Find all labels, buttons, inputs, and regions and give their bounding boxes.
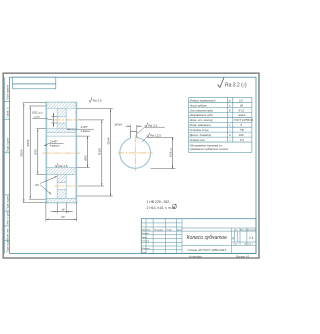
- svg-text:+0,035: +0,035: [33, 116, 40, 118]
- svg-text:Формат А3: Формат А3: [236, 254, 250, 258]
- svg-text:Ra 2,5: Ra 2,5: [93, 99, 102, 103]
- gear parameter table text: [189, 98, 254, 151]
- svg-text:1:1: 1:1: [249, 236, 254, 240]
- svg-text:Ø155: Ø155: [26, 139, 30, 146]
- svg-text:Сталь 45 ГОСТ 1050-2013: Сталь 45 ГОСТ 1050-2013: [187, 248, 226, 252]
- hatch rim top: [47, 103, 77, 108]
- title block outer: [141, 219, 256, 254]
- svg-text:R3: R3: [35, 183, 39, 187]
- svg-text:Ø144: Ø144: [106, 137, 110, 144]
- svg-text:Листов 1: Листов 1: [244, 244, 253, 246]
- svg-text:4 фаски: 4 фаски: [81, 129, 91, 133]
- svg-text:Подп. и дата: Подп. и дата: [7, 238, 9, 252]
- title block grid: [141, 219, 256, 254]
- svg-text:Коэф. смещения: Коэф. смещения: [190, 123, 212, 127]
- left margin rotated labels: [6, 84, 9, 252]
- svg-text:Копировал: Копировал: [189, 254, 202, 258]
- hatch web lower column below hole: [57, 190, 66, 199]
- svg-text:Ø164: Ø164: [20, 149, 24, 156]
- unspecified roughness symbol in notes: [172, 204, 176, 209]
- svg-text:Взам. инв.: Взам. инв.: [7, 228, 9, 239]
- svg-text:Ø50: Ø50: [83, 155, 87, 161]
- svg-text:160: 160: [239, 133, 244, 137]
- bottom extension lines: [46, 203, 77, 222]
- svg-text:4 фаски: 4 фаски: [50, 143, 60, 147]
- svg-text:ГОСТ 13755-81: ГОСТ 13755-81: [234, 118, 254, 122]
- svg-text:Колесо зубчатое: Колесо зубчатое: [187, 235, 228, 241]
- hatch web lower column above hole: [57, 174, 66, 182]
- svg-text:Подп.: Подп.: [167, 229, 173, 231]
- svg-text:Норм. исх. контур: Норм. исх. контур: [190, 118, 214, 122]
- title block right cells texts: [234, 230, 257, 246]
- dimension root diameter left: [29, 107, 31, 199]
- svg-text:Справ. №: Справ. №: [6, 106, 9, 117]
- bore circle: [120, 138, 151, 169]
- dimension hole circle right: [101, 120, 103, 186]
- gear parameter table: [189, 98, 252, 153]
- svg-text:50: 50: [61, 215, 65, 219]
- svg-text:0°12': 0°12': [239, 108, 246, 112]
- svg-text:Лист: Лист: [234, 244, 239, 246]
- svg-text:Масштаб: Масштаб: [247, 230, 257, 232]
- svg-text:Угол наклона зуба: Угол наклона зуба: [190, 108, 214, 112]
- technical notes: [147, 200, 177, 210]
- title block texts left column: [142, 228, 183, 254]
- svg-text:Разраб.: Разраб.: [142, 233, 150, 235]
- svg-text:Ra 12,5: Ra 12,5: [150, 134, 161, 138]
- keyway slot: [130, 131, 136, 138]
- hole Ø12 dimension: [51, 116, 57, 118]
- upper hole centerline: [54, 119, 78, 121]
- svg-text:Перв. примен.: Перв. примен.: [7, 84, 9, 100]
- svg-text:Дата: Дата: [177, 229, 183, 231]
- svg-text:1 НВ 229...262.: 1 НВ 229...262.: [147, 200, 171, 204]
- svg-text:Осевой шаг: Осевой шаг: [190, 138, 206, 142]
- svg-text:Число зубьев: Число зубьев: [190, 103, 207, 107]
- face width dimension: [46, 218, 77, 220]
- svg-text:2 Н14, h14, ± IT14/2.: 2 Н14, h14, ± IT14/2.: [147, 206, 177, 210]
- svg-text:Делит. диаметр: Делит. диаметр: [189, 133, 212, 137]
- svg-text:2×45°: 2×45°: [80, 125, 89, 129]
- svg-text:№ докум.: № докум.: [154, 228, 164, 231]
- gear axis centerline: [43, 152, 81, 154]
- svg-text:6,3: 6,3: [240, 138, 244, 142]
- svg-text:Подп. и дата: Подп. и дата: [7, 195, 9, 209]
- left margin column boxes: [4, 77, 9, 253]
- right extension lines: [77, 109, 113, 196]
- hatch rim bottom: [47, 198, 77, 202]
- web thickness dimension: [51, 211, 58, 213]
- svg-text:Ra 3,2: Ra 3,2: [148, 123, 157, 127]
- bore roughness Ra 1.6: [55, 163, 58, 167]
- copied / format footer: [189, 254, 250, 258]
- svg-text:Лит.: Лит.: [234, 230, 238, 232]
- svg-text:Лист: Лист: [146, 229, 151, 231]
- svg-text:пряжённого зубчатого колеса: пряжённого зубчатого колеса: [190, 147, 229, 151]
- svg-text:14: 14: [61, 207, 65, 211]
- hatch web upper column above hole: [57, 108, 66, 117]
- svg-text:Подп. и дата: Подп. и дата: [7, 137, 9, 151]
- dimension hub diameter left: [37, 129, 39, 175]
- inner drawing frame: [10, 77, 256, 253]
- surface finish mark top right: [218, 78, 225, 88]
- bore surface roughness Ra 12.5: [147, 133, 150, 138]
- lower hole centerline: [54, 185, 78, 187]
- left extension lines: [23, 103, 46, 203]
- dimension OD left: [23, 103, 25, 202]
- svg-text:Т.контр.: Т.контр.: [142, 241, 150, 243]
- keyway depth dimension: [151, 168, 176, 170]
- svg-text:Инв. № дубл.: Инв. № дубл.: [6, 210, 9, 225]
- svg-text:7-В: 7-В: [240, 128, 244, 132]
- svg-text:Ra 1,6: Ra 1,6: [58, 164, 67, 168]
- svg-text:Ø105: Ø105: [98, 148, 102, 155]
- svg-text:80: 80: [240, 103, 243, 107]
- hatch hub upper band: [47, 129, 77, 133]
- keyway width dimension: [126, 125, 142, 131]
- dimension bore right: [87, 136, 89, 167]
- keyway roughness Ra 3.2: [145, 123, 148, 128]
- svg-text:14Js9: 14Js9: [114, 123, 122, 127]
- gear body outline: [45, 102, 47, 203]
- top-left application stamp: [13, 77, 56, 84]
- svg-text:Направление зуба: Направление зуба: [190, 113, 213, 117]
- svg-text:Пров.: Пров.: [142, 237, 148, 239]
- hatch hub lower band: [47, 168, 77, 175]
- svg-text:2,0: 2,0: [238, 98, 243, 102]
- sheet outer border: [3, 73, 259, 258]
- erase circle arc at keyway: [131, 135, 137, 139]
- bore centerlines: [118, 152, 153, 154]
- svg-text:Н.контр.: Н.контр.: [142, 248, 151, 250]
- svg-text:2×45°: 2×45°: [49, 139, 58, 143]
- tooth flank roughness Ra 2.5: [89, 97, 92, 102]
- svg-text:левое: левое: [237, 114, 246, 117]
- hatch web upper column below hole: [57, 123, 66, 129]
- svg-text:Модуль нормальный: Модуль нормальный: [190, 98, 216, 102]
- gear inner edge lines: [47, 108, 77, 198]
- svg-text:Утв.: Утв.: [142, 252, 147, 254]
- svg-text:Ø70: Ø70: [34, 149, 38, 155]
- svg-text:Степень точн.: Степень точн.: [190, 128, 210, 132]
- svg-text:Обозначение чертежа со-: Обозначение чертежа со-: [190, 144, 223, 148]
- dimension rim inner diameter right: [110, 109, 112, 196]
